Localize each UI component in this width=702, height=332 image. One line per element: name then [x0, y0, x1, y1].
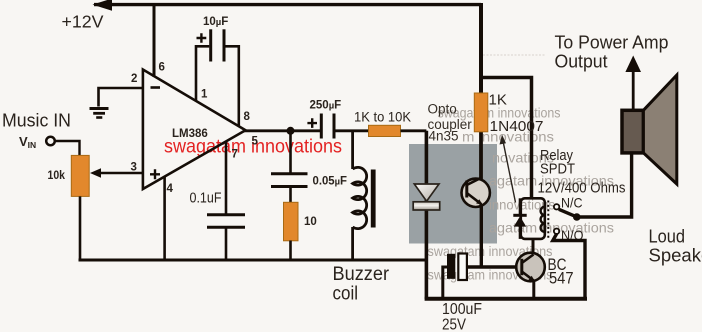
wiper arrowhead	[90, 168, 101, 177]
svg-text:LM386: LM386	[172, 128, 208, 140]
wire resistor 10 to rail	[289, 241, 292, 260]
svg-text:Opto: Opto	[428, 102, 457, 117]
output arrow up	[632, 69, 635, 111]
svg-text:1K: 1K	[489, 92, 507, 109]
loudspeaker driver	[622, 110, 643, 153]
op-amp U1 LM386	[143, 70, 246, 190]
wire pin2	[99, 88, 143, 107]
wire phototransistor collector	[479, 132, 483, 180]
svg-text:agatam innovations: agatam innovations	[489, 220, 614, 236]
wire resistor to opto LED	[401, 129, 427, 132]
svg-text:250µF: 250µF	[310, 100, 342, 112]
op-amp plus mark	[150, 169, 160, 179]
svg-text:25V: 25V	[442, 317, 467, 332]
wire relay feed	[481, 78, 532, 200]
resistor 1K	[474, 93, 488, 132]
capacitor 250uF plates	[320, 114, 323, 139]
wire pin4	[163, 176, 166, 259]
capacitor 100uF black plate	[447, 254, 455, 279]
opto coupler U2 4n35 body	[409, 144, 497, 244]
node output junction	[287, 127, 295, 135]
wire 0.05uF branch	[289, 131, 292, 173]
svg-text:0.05µF: 0.05µF	[313, 176, 348, 188]
svg-text:7: 7	[232, 149, 238, 161]
svg-text:547: 547	[549, 269, 574, 288]
wire pin3 wiper	[96, 172, 143, 175]
svg-text:8: 8	[244, 111, 251, 123]
capacitor C1 10uF plates	[209, 29, 212, 61]
switch arm	[559, 209, 576, 216]
capacitor 0.1uF plates	[207, 213, 245, 216]
svg-text:Loud: Loud	[649, 226, 686, 247]
wire N/O to ground rail	[553, 234, 585, 300]
relay K1 coil box	[521, 198, 545, 239]
N/C contact	[554, 204, 559, 209]
svg-text:10µF: 10µF	[203, 16, 228, 28]
wire pot bottom	[79, 196, 82, 261]
svg-text:Music IN: Music IN	[2, 111, 71, 131]
svg-text:N/C: N/C	[561, 195, 583, 211]
wire 250uF to resistor	[334, 129, 369, 132]
svg-text:1N4007: 1N4007	[490, 118, 544, 135]
svg-text:+12V: +12V	[62, 12, 104, 32]
wire 10uF left to pin1	[196, 46, 209, 101]
wire 100uF to ground	[443, 267, 447, 298]
1N4007 leader arrow	[503, 141, 516, 203]
wire pin5 output	[244, 129, 321, 132]
svg-text:10k: 10k	[48, 168, 66, 182]
svg-text:5: 5	[252, 136, 259, 148]
phototransistor inside opto	[462, 179, 490, 207]
LED cathode bar	[413, 202, 440, 210]
svg-text:coil: coil	[333, 283, 359, 305]
inductor buzzer coil	[353, 167, 367, 228]
svg-text:4n35: 4n35	[429, 129, 459, 144]
svg-text:2: 2	[131, 73, 137, 85]
wire +12V drop to 1K	[479, 3, 483, 94]
wire 0.1uF to rail	[225, 227, 228, 259]
10uF plus mark	[197, 33, 207, 43]
transistor Q1 BC547	[516, 253, 545, 282]
faint dashed divider	[483, 54, 546, 56]
Vin terminal	[46, 137, 55, 146]
svg-text:10: 10	[304, 216, 317, 228]
capacitor 0.05uF plates	[271, 172, 308, 175]
buzzer coil core bar	[371, 170, 376, 228]
potentiometer 10k	[71, 155, 89, 196]
diode 1N4007	[519, 198, 522, 215]
capacitor 100uF white plate	[458, 254, 467, 281]
relay mechanical link dotted	[547, 201, 549, 240]
svg-text:To Power Amp: To Power Amp	[555, 33, 669, 53]
svg-text:Speaker: Speaker	[649, 245, 702, 266]
ground rail bottom	[79, 259, 429, 262]
wire base node	[467, 265, 516, 268]
resistor 10	[284, 202, 299, 241]
wire buzzer coil bottom	[351, 227, 354, 259]
wire pin7	[225, 141, 228, 214]
wire phototransistor emitter	[480, 204, 483, 267]
N/O contact	[554, 229, 559, 234]
relay coil humps	[541, 207, 545, 232]
svg-text:6: 6	[159, 62, 165, 74]
svg-text:1: 1	[201, 89, 208, 101]
svg-text:100uF: 100uF	[442, 301, 482, 318]
wire 10uF right to pin8	[225, 46, 238, 127]
wire Vin to pot	[55, 141, 80, 155]
svg-text:0.1uF: 0.1uF	[190, 191, 222, 207]
loudspeaker horn	[643, 75, 676, 184]
ground symbol	[90, 109, 109, 118]
svg-text:SPDT: SPDT	[540, 161, 575, 178]
svg-text:1K to 10K: 1K to 10K	[354, 109, 412, 125]
wire BC547 emitter	[532, 281, 535, 300]
svg-text:4: 4	[167, 183, 174, 195]
switch arm pivot blob	[573, 213, 581, 221]
bottom sub-rail	[425, 297, 587, 301]
+12V supply rail	[94, 3, 481, 6]
wire relay to BC547 collector	[532, 239, 535, 253]
resistor 1K to 10K	[369, 125, 401, 136]
wire pin6 from rail	[153, 5, 156, 77]
svg-text:Output: Output	[555, 52, 608, 72]
wire speaker to switch arm	[577, 152, 632, 217]
wire buzzer coil top	[351, 131, 354, 169]
wire opto LED vertical	[425, 131, 429, 299]
wire 0.05uF to resistor 10	[289, 187, 292, 204]
supply rail left arrowhead	[93, 0, 113, 11]
250uF plus mark	[307, 118, 317, 128]
op-amp minus mark	[151, 86, 161, 89]
